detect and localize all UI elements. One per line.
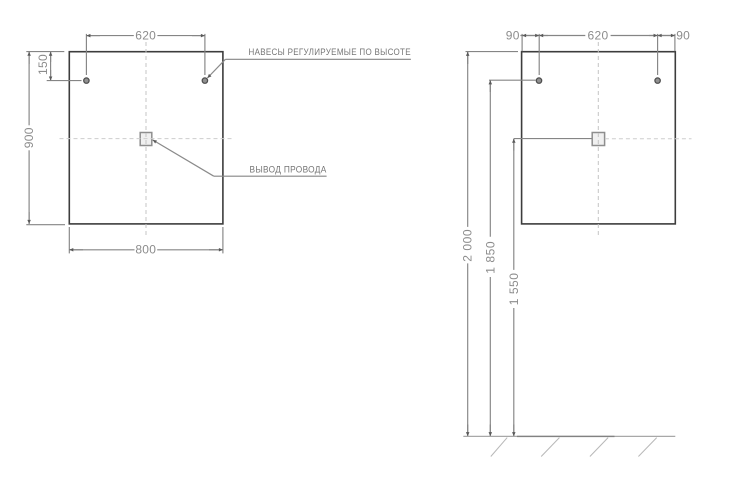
hanger dot left (right view)	[536, 78, 541, 83]
svg-text:90: 90	[676, 28, 690, 42]
svg-text:1 850: 1 850	[483, 241, 497, 274]
vertical centerline (dashed) front view	[145, 42, 147, 238]
hanger dot right (front view)	[202, 78, 207, 83]
leader: wire outlet label	[153, 140, 327, 176]
svg-text:90: 90	[506, 28, 520, 42]
svg-text:800: 800	[135, 243, 156, 257]
cabinet body right view	[522, 52, 676, 224]
floor hatch 1	[491, 438, 507, 457]
horizontal centerline (dashed) front view	[60, 138, 233, 140]
dimension 1850 (floor to hangers)	[489, 80, 536, 436]
svg-text:НАВЕСЫ РЕГУЛИРУЕМЫЕ ПО ВЫСОТЕ: НАВЕСЫ РЕГУЛИРУЕМЫЕ ПО ВЫСОТЕ	[249, 47, 411, 57]
floor line	[463, 435, 675, 437]
svg-text:620: 620	[588, 28, 609, 42]
top dimension chain 90 / 620 / 90	[520, 34, 675, 75]
leader: hangers label	[207, 59, 411, 78]
floor hatch 4	[638, 438, 656, 457]
wire outlet square (front view)	[140, 133, 152, 146]
horizontal centerline (dashed) right view	[605, 138, 692, 140]
dimension 900 (front view)	[26, 52, 65, 225]
vertical centerline (dashed) right view	[597, 42, 599, 237]
dimension 1550 (floor to wire outlet)	[514, 139, 592, 437]
svg-text:620: 620	[135, 28, 156, 42]
floor hatch 3	[590, 438, 608, 457]
floor hatch 2	[541, 438, 559, 457]
svg-text:2 000: 2 000	[461, 229, 475, 262]
svg-text:1 550: 1 550	[507, 273, 521, 306]
floor line dark segment	[517, 435, 615, 437]
cabinet body front view	[69, 52, 223, 224]
wire outlet square (right view)	[592, 133, 604, 146]
hanger dot left (front view)	[84, 78, 89, 83]
dimension 2000 (floor to top)	[466, 52, 519, 437]
dimension 620 (front view)	[86, 34, 204, 75]
svg-text:150: 150	[36, 54, 50, 75]
hanger dot right (right view)	[655, 78, 660, 83]
svg-text:900: 900	[22, 127, 36, 148]
dimension 800 (front view)	[69, 227, 223, 253]
svg-text:ВЫВОД ПРОВОДА: ВЫВОД ПРОВОДА	[250, 165, 327, 175]
dimension 150 (front view)	[26, 52, 81, 81]
